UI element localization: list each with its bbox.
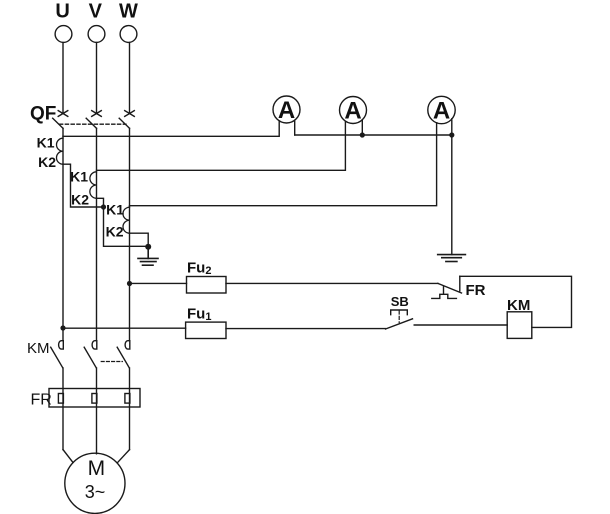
node A2 bus	[360, 132, 365, 137]
contactor KM contact 1	[51, 341, 64, 368]
breaker QF pole 1	[53, 111, 68, 129]
coil KM	[507, 312, 532, 339]
ground 1	[138, 247, 158, 265]
overload FR heater 3	[125, 394, 130, 404]
contactor KM contact 3	[117, 341, 130, 368]
svg-text:K2: K2	[38, 154, 56, 170]
svg-text:W: W	[119, 1, 138, 23]
ammeter A1	[273, 96, 300, 123]
svg-text:V: V	[89, 1, 103, 23]
svg-text:A: A	[433, 98, 450, 125]
node CT junction	[101, 204, 106, 209]
wire V phase top	[96, 43, 98, 114]
fuse FU2 body	[187, 277, 227, 294]
wire W to motor	[117, 450, 129, 463]
svg-text:K1: K1	[106, 202, 124, 218]
motor M	[65, 453, 125, 513]
wire K1 CT1 to A1	[63, 121, 279, 136]
svg-text:M: M	[88, 457, 106, 480]
CT 1 winding	[57, 138, 63, 164]
wire W phase lower	[129, 368, 131, 450]
wire V phase mid	[96, 128, 98, 340]
wire V phase lower	[96, 368, 98, 454]
wire K2 CT2 to junction	[97, 198, 104, 207]
ammeter A3	[428, 96, 455, 123]
svg-text:K1: K1	[37, 135, 55, 151]
svg-text:K2: K2	[71, 192, 89, 208]
breaker QF pole 2	[86, 111, 101, 129]
wire W phase mid	[129, 128, 131, 340]
wire FU2 to FR	[226, 282, 438, 284]
node FU1 tap	[60, 325, 65, 330]
wire K2 CT3 to ground junction	[130, 233, 149, 246]
breaker QF linkage dashed	[60, 123, 127, 125]
node A3 bus	[449, 132, 454, 137]
svg-text:U: U	[55, 1, 69, 23]
wire SB to KM coil	[414, 324, 507, 326]
pushbutton SB	[386, 310, 413, 329]
wire A2 right stub	[361, 120, 363, 135]
node FU2 tap	[127, 281, 132, 286]
overload FR heater 2	[92, 394, 97, 404]
wire K1 CT2 to A2	[97, 122, 346, 171]
svg-text:A: A	[344, 98, 361, 125]
fuse FU1 body	[186, 322, 226, 338]
svg-text:A: A	[278, 97, 295, 124]
wire FU1 to SB	[226, 328, 386, 330]
wire ammeter bus	[295, 134, 452, 136]
wire FR rail to KM coil	[460, 276, 572, 327]
svg-text:SB: SB	[391, 294, 409, 309]
wire junction to ground junction	[104, 207, 149, 246]
terminal circle U	[55, 26, 72, 43]
overload FR heater 1	[58, 394, 63, 404]
terminal circle W	[120, 26, 137, 43]
ammeter A2	[340, 97, 367, 124]
contactor KM contact 2	[84, 341, 97, 368]
relay contact FR	[432, 276, 462, 298]
node ground junction	[145, 244, 151, 250]
svg-text:QF: QF	[30, 104, 56, 125]
wire W phase top	[129, 43, 131, 114]
wire K1 CT3 to A3	[130, 123, 437, 206]
CT 3 winding	[123, 207, 130, 233]
wire U phase top	[62, 43, 64, 114]
wire U phase lower	[62, 368, 64, 450]
wire U phase mid	[62, 128, 64, 340]
svg-text:K1: K1	[70, 169, 88, 185]
wire A1 right stub	[294, 120, 296, 135]
wire FU2 left	[130, 282, 187, 284]
svg-text:FR: FR	[466, 282, 486, 299]
breaker QF pole 3	[119, 111, 134, 129]
contactor KM linkage dashed	[101, 361, 122, 363]
svg-text:K2: K2	[106, 224, 124, 240]
ground 2	[438, 255, 466, 262]
CT 2 winding	[90, 172, 97, 199]
wire U to motor	[63, 450, 73, 463]
overload FR box	[49, 389, 140, 408]
svg-text:3~: 3~	[85, 482, 106, 502]
svg-text:KM: KM	[27, 340, 50, 357]
wire FU1 left	[63, 327, 186, 329]
wire A3 right stub to ground	[451, 119, 453, 255]
terminal circle V	[88, 26, 105, 43]
wire K2 CT1 to junction	[63, 164, 104, 207]
